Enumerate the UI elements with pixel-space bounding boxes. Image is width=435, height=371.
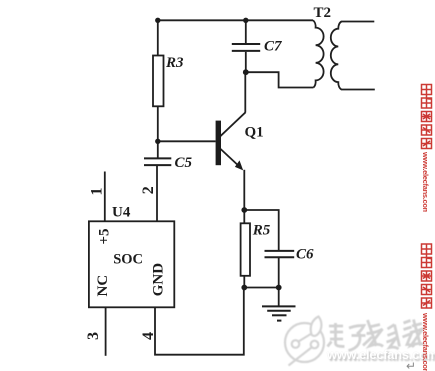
node R5 bottom junction	[241, 285, 247, 291]
wire collector vertical	[244, 72, 246, 112]
watermark red edge block 1 url	[416, 152, 430, 212]
wire C7 node to winding bottom	[246, 72, 314, 87]
wire bottom node horizontal	[244, 287, 278, 289]
wire U4 pin3	[105, 307, 107, 356]
wire ground lead	[278, 288, 280, 306]
IC U4 box	[89, 221, 174, 307]
transformer T2 primary winding	[313, 20, 324, 87]
node base junction	[155, 139, 160, 144]
node emitter junction	[241, 207, 247, 213]
resistor R5	[241, 223, 250, 275]
wire U4 pin1	[104, 172, 106, 222]
node C7 bottom junction	[243, 69, 249, 75]
watermark return arrow	[406, 359, 416, 371]
wire U4 pin4 to emitter node	[155, 288, 244, 355]
transistor Q1 collector lead	[220, 112, 245, 136]
wire R5 bottom	[243, 276, 245, 288]
wire left vertical upper	[157, 20, 159, 55]
watermark ghost url www.elecfans.com	[327, 347, 435, 362]
wire C7 top lead	[245, 20, 247, 43]
node C6 bottom junction	[276, 285, 282, 291]
node top-left junction	[155, 18, 160, 23]
node top C7 junction	[243, 18, 248, 23]
capacitor C6	[265, 251, 295, 257]
watermark red edge block 2 url	[416, 313, 430, 371]
transistor Q1 emitter arrow	[235, 160, 243, 170]
capacitor C5	[144, 158, 171, 165]
wire C5 to U4 pin2	[156, 166, 158, 221]
wire top horizontal	[158, 19, 313, 21]
wire R3 to base node	[157, 106, 159, 157]
ground	[262, 306, 296, 320]
transformer T2 secondary winding	[331, 22, 375, 90]
transistor Q1 base bar	[216, 121, 221, 166]
wire C7 bottom lead	[245, 52, 247, 72]
wire emitter node to C6	[244, 210, 278, 250]
transistor Q1 emitter lead	[220, 149, 241, 169]
wire emitter node to R5	[243, 210, 245, 223]
capacitor C7	[232, 44, 260, 51]
wire base	[158, 140, 216, 142]
resistor R3	[153, 56, 164, 107]
wire C6 to ground node	[278, 258, 280, 288]
wire emitter vertical	[243, 170, 245, 210]
